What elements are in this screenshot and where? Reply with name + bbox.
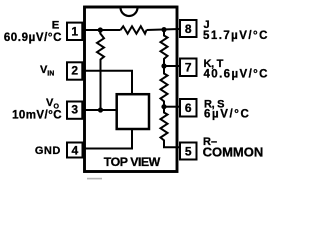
svg-text:GND: GND xyxy=(35,145,61,157)
svg-text:IN: IN xyxy=(47,70,54,77)
svg-text:3: 3 xyxy=(71,103,78,117)
svg-text:COMMON: COMMON xyxy=(203,145,264,160)
svg-text:E: E xyxy=(52,19,60,31)
svg-text:5: 5 xyxy=(185,144,192,158)
svg-text:60.9µV/°C: 60.9µV/°C xyxy=(4,32,62,44)
svg-text:6µV/°C: 6µV/°C xyxy=(204,109,250,121)
svg-text:8: 8 xyxy=(185,22,192,36)
svg-text:6: 6 xyxy=(185,101,192,115)
svg-text:1: 1 xyxy=(71,25,78,39)
svg-text:7: 7 xyxy=(185,61,192,75)
svg-text:O: O xyxy=(54,104,60,111)
svg-text:10mV/°C: 10mV/°C xyxy=(12,110,62,122)
svg-text:TOP VIEW: TOP VIEW xyxy=(104,155,161,169)
svg-text:4: 4 xyxy=(72,143,79,157)
svg-text:2: 2 xyxy=(71,63,78,77)
svg-text:51.7µV/°C: 51.7µV/°C xyxy=(203,30,269,42)
svg-text:40.6µV/°C: 40.6µV/°C xyxy=(204,69,269,81)
svg-text:J: J xyxy=(204,19,210,31)
